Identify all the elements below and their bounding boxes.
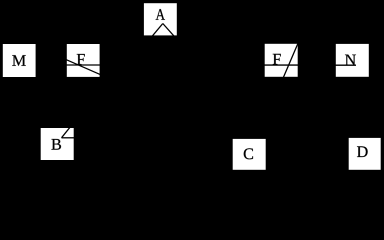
node D [349, 138, 381, 170]
node F1 [67, 44, 100, 77]
node F2 [265, 44, 298, 77]
wire right ray into node A [163, 24, 176, 39]
wire into node N [330, 64, 356, 66]
node N [336, 44, 369, 77]
wire left ray into node A [150, 24, 163, 39]
node B [41, 128, 74, 160]
wire diagonal ray at node B [62, 124, 74, 138]
wire horizontal ray at node B [62, 137, 78, 139]
wire horizontal through node F2 [259, 64, 303, 66]
node A [144, 3, 177, 35]
node C [233, 139, 266, 170]
wire horizontal through node F1 [61, 64, 105, 66]
wire slash through node F2 [281, 40, 299, 83]
wire diagonal through node F1 [62, 58, 104, 76]
node M [3, 44, 36, 77]
